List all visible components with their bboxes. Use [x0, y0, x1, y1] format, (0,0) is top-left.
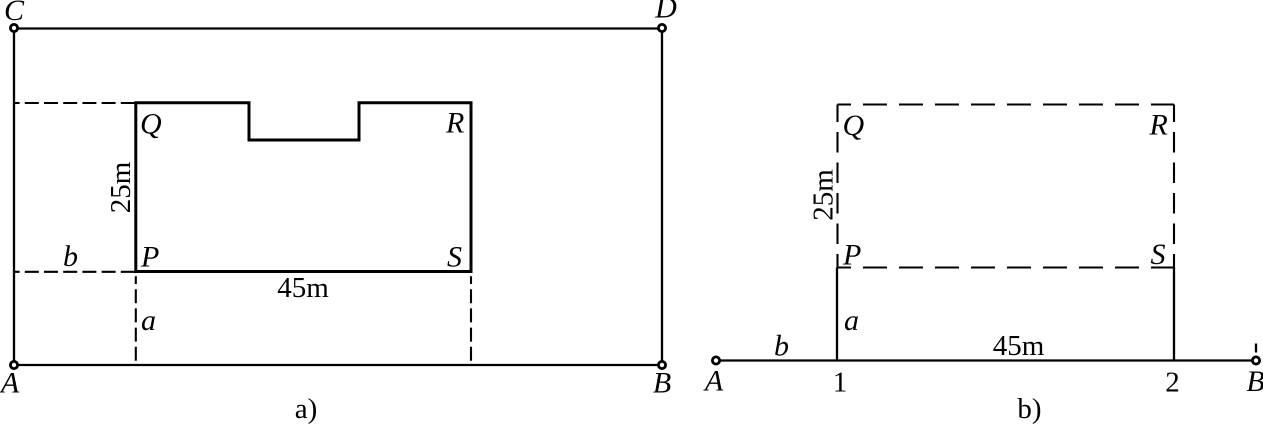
dashed vertical below S — [470, 276, 472, 365]
tick above B — [1255, 344, 1257, 353]
svg-text:1: 1 — [833, 367, 848, 399]
wire vertical at station 2 — [1173, 268, 1175, 361]
svg-text:25m: 25m — [105, 161, 137, 213]
wire vertical at station 1 — [836, 268, 838, 361]
svg-text:25m: 25m — [808, 169, 840, 221]
svg-text:b): b) — [1017, 393, 1041, 425]
dashed rectangle PQRS (fig b) top — [838, 103, 1175, 105]
svg-text:Q: Q — [843, 109, 865, 142]
dashed line P-level to left edge — [14, 271, 136, 273]
dashed rectangle PQRS (fig b) right — [1173, 105, 1175, 268]
node D — [658, 24, 665, 31]
svg-text:R: R — [1149, 109, 1168, 142]
svg-text:B: B — [653, 367, 671, 400]
node B — [658, 361, 665, 368]
svg-text:B: B — [1246, 365, 1263, 398]
node A (fig b) — [712, 357, 719, 364]
svg-text:2: 2 — [1165, 367, 1180, 399]
node A — [10, 361, 17, 368]
svg-text:P: P — [842, 239, 861, 272]
building outline PQRS with notch — [136, 103, 471, 272]
node C — [10, 24, 17, 31]
svg-text:b: b — [774, 330, 789, 363]
svg-text:P: P — [140, 241, 159, 274]
svg-text:a: a — [844, 304, 859, 337]
svg-text:a: a — [141, 304, 156, 337]
wire outer rectangle ABDC — [14, 29, 662, 366]
svg-text:45m: 45m — [993, 330, 1045, 362]
svg-text:D: D — [654, 0, 677, 25]
svg-text:C: C — [4, 0, 25, 27]
dashed rectangle PQRS (fig b) bottom — [838, 266, 1175, 268]
dashed rectangle PQRS (fig b) left — [836, 105, 838, 268]
node B (fig b) — [1252, 357, 1259, 364]
svg-text:a): a) — [295, 393, 318, 425]
dashed line Q-level to left edge — [14, 102, 136, 104]
svg-text:b: b — [63, 240, 78, 273]
svg-text:A: A — [703, 365, 724, 398]
svg-text:A: A — [0, 367, 20, 400]
svg-text:R: R — [445, 107, 464, 140]
svg-text:S: S — [1151, 238, 1166, 271]
dashed vertical below P — [135, 276, 137, 365]
wire baseline A-B — [716, 359, 1256, 361]
svg-text:Q: Q — [140, 108, 162, 141]
svg-text:S: S — [447, 241, 462, 274]
svg-text:45m: 45m — [277, 272, 329, 304]
